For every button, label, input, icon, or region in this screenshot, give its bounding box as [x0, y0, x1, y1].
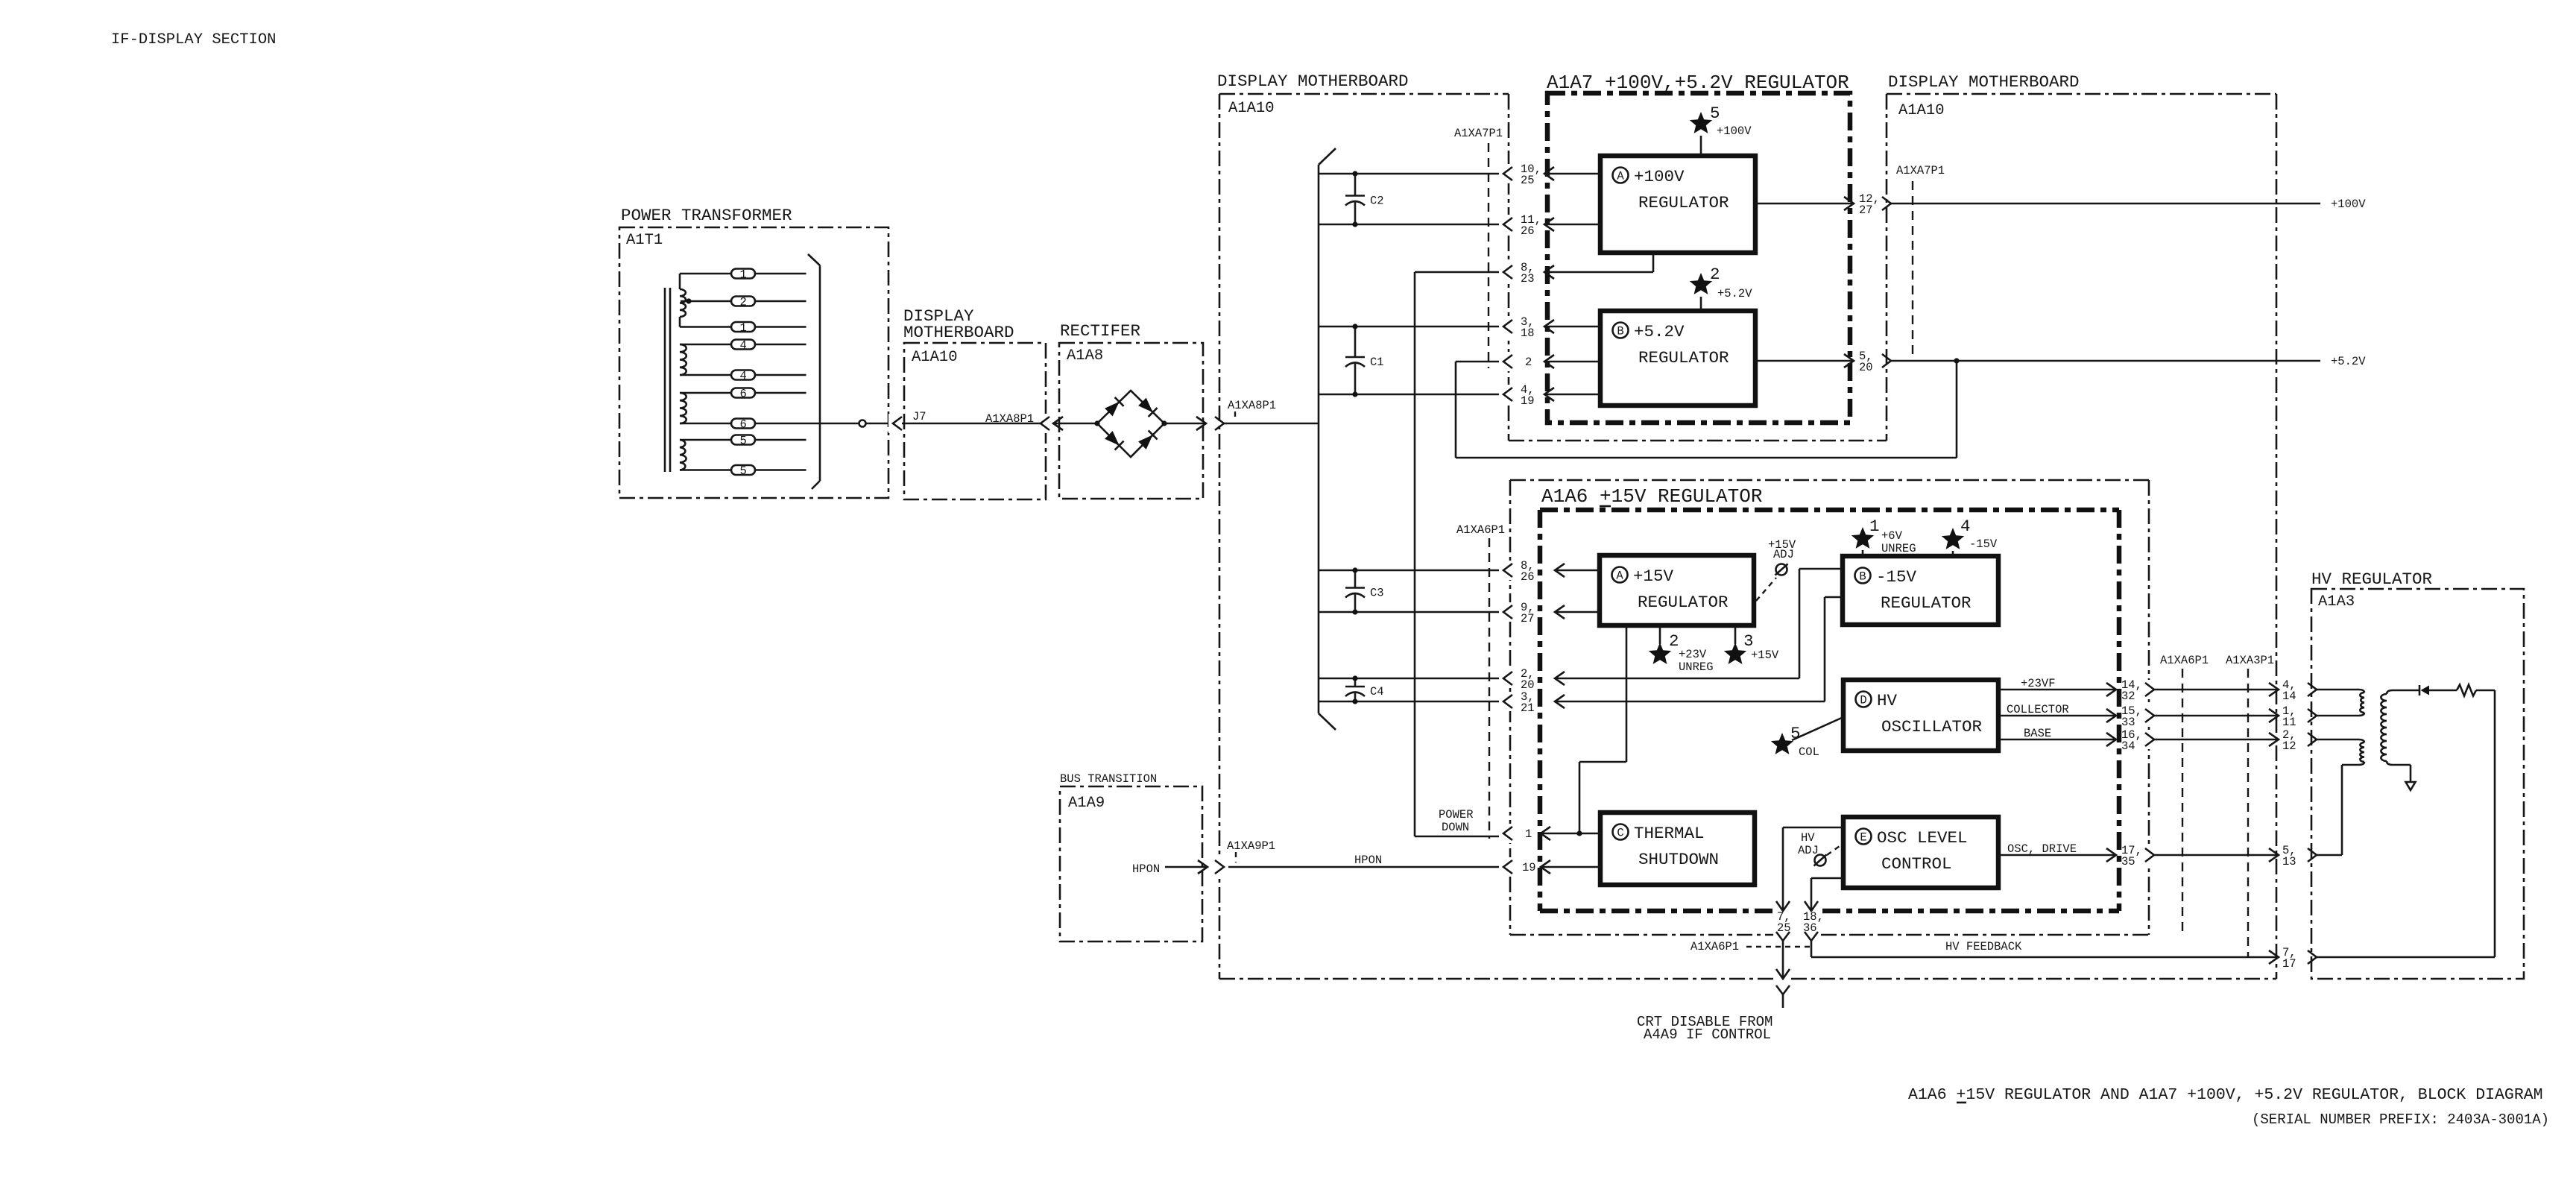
svg-text:+100V: +100V	[1634, 167, 1685, 186]
svg-text:+5.2V: +5.2V	[1634, 322, 1685, 341]
svg-text:1: 1	[740, 268, 747, 282]
svg-text:C4: C4	[1370, 685, 1384, 698]
svg-text:13: 13	[2282, 855, 2296, 868]
svg-text:+100V: +100V	[1717, 124, 1752, 138]
svg-text:UNREG: UNREG	[1679, 660, 1714, 674]
svg-text:A1XA9P1: A1XA9P1	[1227, 839, 1275, 853]
svg-text:2: 2	[740, 296, 747, 309]
svg-text:DISPLAY MOTHERBOARD: DISPLAY MOTHERBOARD	[1888, 72, 2080, 92]
svg-text:UNREG: UNREG	[1881, 542, 1916, 555]
svg-text:35: 35	[2121, 855, 2135, 868]
svg-text:14: 14	[2282, 690, 2296, 703]
svg-text:A: A	[1617, 170, 1624, 183]
svg-text:HPON: HPON	[1132, 862, 1160, 876]
svg-text:MOTHERBOARD: MOTHERBOARD	[903, 323, 1014, 342]
svg-text:A1XA6P1: A1XA6P1	[2160, 654, 2209, 667]
svg-text:POWER TRANSFORMER: POWER TRANSFORMER	[621, 206, 792, 225]
svg-text:DISPLAY MOTHERBOARD: DISPLAY MOTHERBOARD	[1217, 72, 1409, 91]
svg-text:27: 27	[1859, 204, 1873, 217]
svg-text:ADJ: ADJ	[1773, 548, 1794, 561]
svg-text:A1T1: A1T1	[626, 232, 663, 249]
svg-text:26: 26	[1521, 224, 1535, 238]
svg-text:2: 2	[1669, 631, 1679, 651]
svg-text:HV REGULATOR: HV REGULATOR	[2311, 570, 2432, 589]
svg-text:1: 1	[740, 321, 747, 335]
svg-text:5: 5	[740, 435, 747, 448]
svg-text:21: 21	[1521, 701, 1535, 715]
svg-text:HV: HV	[1877, 691, 1898, 710]
svg-text:-15V: -15V	[1969, 537, 1998, 551]
svg-text:1: 1	[1525, 827, 1532, 841]
svg-text:CONTROL: CONTROL	[1881, 854, 1952, 874]
svg-text:A1XA6P1: A1XA6P1	[1456, 523, 1505, 537]
svg-text:J7: J7	[912, 410, 926, 423]
svg-text:A1A10: A1A10	[1898, 102, 1945, 119]
svg-text:A4A9 IF CONTROL: A4A9 IF CONTROL	[1644, 1026, 1771, 1043]
svg-text:+6V: +6V	[1881, 529, 1903, 543]
svg-text:A1A6 +15V REGULATOR AND A1A7 +: A1A6 +15V REGULATOR AND A1A7 +100V, +5.2…	[1908, 1086, 2543, 1104]
svg-text:34: 34	[2121, 739, 2135, 753]
svg-text:18: 18	[1521, 327, 1535, 340]
svg-text:A1A10: A1A10	[1228, 100, 1275, 117]
svg-text:26: 26	[1521, 570, 1535, 584]
svg-text:+100V: +100V	[2331, 198, 2366, 211]
svg-text:19: 19	[1522, 861, 1536, 874]
svg-text:27: 27	[1521, 612, 1535, 625]
svg-text:32: 32	[2121, 690, 2135, 703]
svg-text:2: 2	[1525, 356, 1532, 369]
svg-text:B: B	[1617, 325, 1623, 338]
svg-text:20: 20	[1859, 361, 1873, 374]
svg-text:23: 23	[1521, 272, 1535, 286]
svg-text:4: 4	[740, 339, 747, 353]
svg-text:+23VF: +23VF	[2021, 677, 2056, 690]
svg-text:HV FEEDBACK: HV FEEDBACK	[1945, 940, 2022, 953]
svg-text:C: C	[1617, 827, 1623, 840]
svg-text:(SERIAL NUMBER PREFIX: 2403A-3: (SERIAL NUMBER PREFIX: 2403A-3001A)	[2252, 1111, 2549, 1128]
svg-text:2: 2	[1710, 265, 1720, 284]
svg-text:DOWN: DOWN	[1442, 821, 1469, 834]
svg-text:ADJ: ADJ	[1798, 844, 1819, 857]
svg-text:D: D	[1860, 694, 1866, 707]
svg-text:REGULATOR: REGULATOR	[1638, 593, 1729, 612]
svg-text:HV: HV	[1801, 831, 1815, 845]
svg-text:A1A6 +15V REGULATOR: A1A6 +15V REGULATOR	[1541, 485, 1762, 508]
svg-text:-15V: -15V	[1876, 567, 1917, 587]
svg-text:6: 6	[740, 418, 747, 432]
svg-text:REGULATOR: REGULATOR	[1638, 348, 1729, 368]
svg-text:C2: C2	[1370, 195, 1384, 208]
svg-text:25: 25	[1521, 174, 1535, 187]
svg-text:C3: C3	[1370, 587, 1384, 600]
svg-text:A1A3: A1A3	[2318, 593, 2355, 611]
svg-text:A1A8: A1A8	[1067, 347, 1103, 365]
svg-text:C1: C1	[1370, 356, 1384, 369]
svg-text:+5.2V: +5.2V	[1717, 287, 1752, 300]
svg-text:HPON: HPON	[1354, 854, 1382, 867]
svg-text:4: 4	[1960, 517, 1971, 536]
svg-text:5: 5	[740, 464, 747, 478]
svg-text:OSCILLATOR: OSCILLATOR	[1881, 717, 1982, 736]
svg-text:A1XA7P1: A1XA7P1	[1454, 127, 1503, 140]
svg-text:+23V: +23V	[1679, 648, 1707, 661]
svg-text:11: 11	[2282, 716, 2296, 729]
svg-text:+15V: +15V	[1751, 649, 1779, 662]
svg-text:A1XA8P1: A1XA8P1	[1228, 399, 1276, 412]
svg-text:BUS TRANSITION: BUS TRANSITION	[1060, 772, 1157, 786]
svg-text:6: 6	[740, 388, 747, 401]
svg-text:B: B	[1859, 570, 1866, 584]
svg-text:POWER: POWER	[1439, 808, 1474, 821]
svg-text:A1A9: A1A9	[1068, 795, 1105, 812]
svg-text:1: 1	[1869, 517, 1880, 536]
svg-text:17: 17	[2282, 957, 2296, 971]
svg-text:A1XA3P1: A1XA3P1	[2226, 654, 2274, 667]
svg-text:A1XA7P1: A1XA7P1	[1896, 164, 1945, 177]
svg-text:COLLECTOR: COLLECTOR	[2007, 703, 2069, 716]
svg-text:COL: COL	[1799, 745, 1819, 759]
svg-text:5: 5	[1790, 724, 1801, 743]
svg-text:19: 19	[1521, 394, 1535, 408]
svg-text:+5.2V: +5.2V	[2331, 355, 2366, 368]
svg-text:THERMAL: THERMAL	[1634, 824, 1705, 843]
svg-text:12: 12	[2282, 739, 2296, 753]
svg-text:A1XA6P1: A1XA6P1	[1690, 940, 1739, 953]
svg-text:OSC LEVEL: OSC LEVEL	[1877, 828, 1968, 848]
svg-text:E: E	[1860, 831, 1866, 845]
svg-text:RECTIFER: RECTIFER	[1060, 321, 1140, 341]
svg-text:A1A7 +100V,+5.2V REGULATOR: A1A7 +100V,+5.2V REGULATOR	[1547, 72, 1849, 94]
svg-text:IF-DISPLAY SECTION: IF-DISPLAY SECTION	[111, 31, 276, 48]
svg-text:REGULATOR: REGULATOR	[1881, 593, 1972, 613]
svg-text:OSC, DRIVE: OSC, DRIVE	[2007, 842, 2077, 856]
svg-text:A: A	[1616, 570, 1623, 583]
svg-text:SHUTDOWN: SHUTDOWN	[1638, 850, 1719, 869]
svg-text:+15V: +15V	[1633, 567, 1674, 586]
svg-text:REGULATOR: REGULATOR	[1638, 193, 1729, 212]
svg-text:BASE: BASE	[2024, 727, 2051, 740]
svg-text:33: 33	[2121, 716, 2135, 729]
svg-text:A1A10: A1A10	[912, 349, 958, 366]
svg-text:5: 5	[1710, 104, 1720, 123]
svg-text:4: 4	[740, 370, 747, 383]
